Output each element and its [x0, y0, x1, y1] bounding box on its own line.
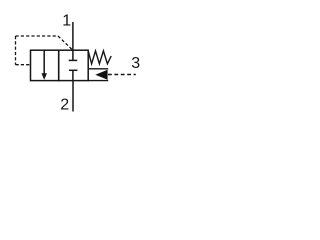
spring (return spring, right side)	[88, 51, 111, 64]
port 1 line	[72, 22, 74, 50]
flow arrow in left box	[41, 50, 47, 80]
port 3 dashed line	[108, 74, 136, 76]
blocked port T (top, right box)	[69, 50, 78, 60]
pilot line left vertical (dashed)	[15, 36, 17, 65]
pilot line top horizontal (dashed)	[16, 35, 59, 37]
pilot arrow (port 3, filled, pointing left)	[95, 70, 107, 80]
pilot line diagonal to port 1 junction (dashed)	[58, 36, 73, 50]
port 2 line	[72, 81, 74, 112]
svg-text:3: 3	[131, 55, 140, 72]
valve body box P2 (right position square)	[59, 50, 88, 80]
pilot line bottom horizontal into valve (dashed)	[16, 64, 31, 66]
valve body box P1 (left position square)	[31, 50, 59, 80]
svg-text:2: 2	[60, 97, 69, 114]
pilot chamber bottom line (body bottom border extension)	[88, 80, 108, 82]
svg-text:1: 1	[62, 13, 71, 30]
blocked port T (bottom, right box)	[69, 70, 78, 80]
pilot chamber top line	[88, 68, 108, 70]
